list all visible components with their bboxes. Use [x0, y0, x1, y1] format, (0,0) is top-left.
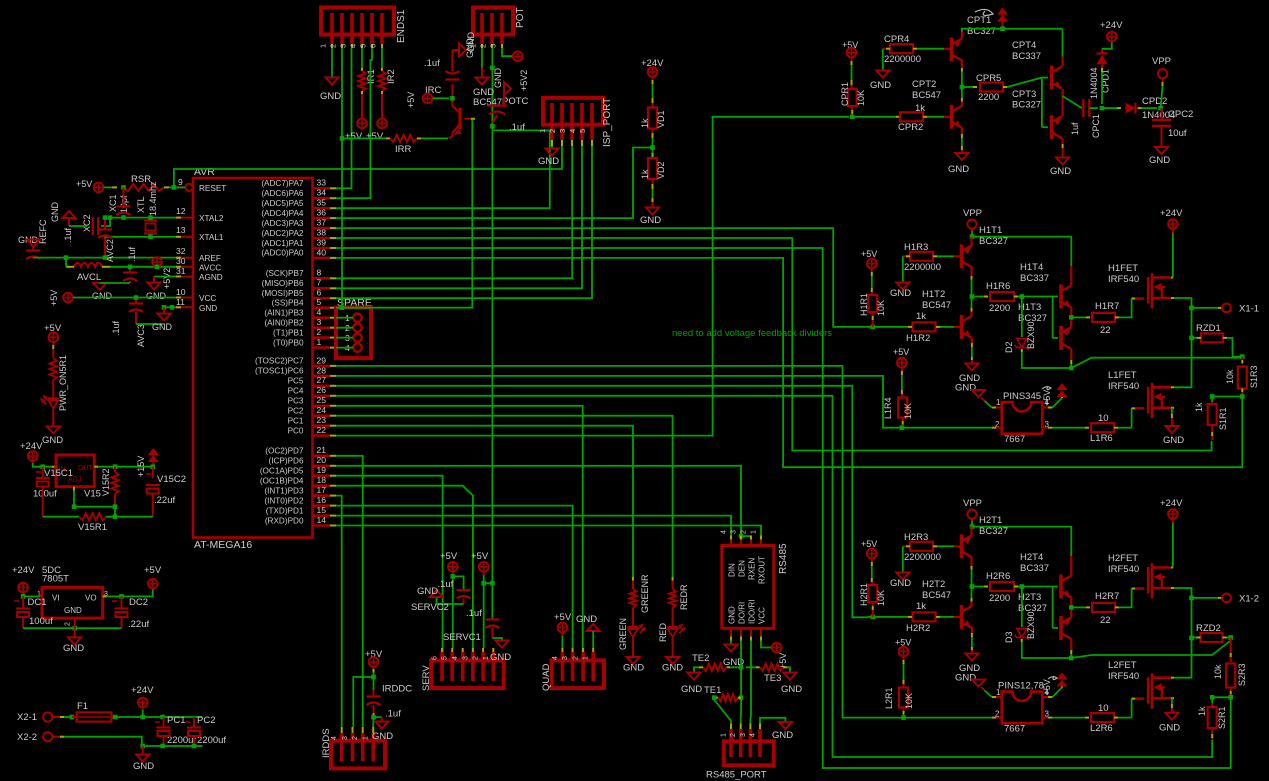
- svg-text:+24V: +24V: [1160, 498, 1183, 509]
- POT pin 3: [500, 13, 504, 44]
- svg-text:22: 22: [317, 425, 327, 435]
- svg-text:SERVC1: SERVC1: [443, 632, 481, 643]
- wire RSR to RESET: [164, 186, 169, 188]
- svg-text:2: 2: [741, 530, 748, 534]
- supply +5V (RS485): [772, 643, 782, 653]
- wire L1FET gate: [1131, 408, 1133, 427]
- LED PWR_ON: [48, 397, 59, 399]
- svg-text:GREEN: GREEN: [618, 618, 628, 650]
- svg-text:.1uf: .1uf: [127, 246, 137, 262]
- svg-text:H1R1: H1R1: [859, 293, 869, 316]
- junction IRDDC top: [371, 675, 376, 680]
- ground GND (POTC): [504, 82, 511, 95]
- svg-text:6: 6: [317, 288, 322, 298]
- svg-text:2200uf: 2200uf: [197, 735, 226, 746]
- wire XTAL1 row: [104, 236, 176, 238]
- svg-text:PINS12,78: PINS12,78: [998, 681, 1044, 692]
- svg-text:+24V: +24V: [131, 685, 154, 696]
- svg-text:IRDDS: IRDDS: [321, 728, 332, 758]
- svg-text:GND: GND: [623, 663, 644, 674]
- MCU pin 7 (MISO)PB6: [313, 287, 330, 290]
- connector QUAD: [552, 660, 604, 688]
- svg-text:IRF540: IRF540: [1108, 381, 1139, 392]
- MCU pin 21 (OC2)PD7: [313, 454, 330, 457]
- svg-text:GND: GND: [662, 663, 683, 674]
- svg-text:(SCK)PB7: (SCK)PB7: [266, 269, 304, 278]
- junction H1R1 bottom: [870, 325, 875, 330]
- svg-text:X1-2: X1-2: [1239, 594, 1259, 605]
- MCU pin 30 AVCC: [176, 266, 193, 268]
- svg-text:1: 1: [319, 44, 328, 48]
- wire H2T2 collector: [971, 587, 973, 599]
- svg-text:H2R1: H2R1: [859, 583, 869, 606]
- MCU pin 12 XTAL2: [176, 217, 193, 219]
- wire PC2 to RED LED: [336, 416, 673, 580]
- wire POT p2 to PA5: [336, 126, 550, 208]
- wire X1 node down: [1174, 308, 1192, 387]
- resistor CPR2 1k: [852, 116, 896, 118]
- svg-text:GND: GND: [133, 761, 154, 772]
- MCU pin 13 XTAL1: [176, 236, 193, 238]
- svg-text:(TOSC2)PC7: (TOSC2)PC7: [255, 357, 304, 366]
- svg-text:35: 35: [317, 198, 327, 208]
- svg-text:GND: GND: [538, 156, 559, 167]
- svg-text:(ADC1)PA1: (ADC1)PA1: [261, 239, 304, 248]
- svg-text:10K: 10K: [903, 403, 913, 419]
- resistor L2R6 10: [1052, 717, 1085, 719]
- 7667-2 pin 3 lead: [1042, 717, 1048, 719]
- junction DEN/RXEN tie: [739, 534, 744, 539]
- ground GND (RS485_PORT): [779, 722, 792, 729]
- wire PC0 to CPR2 net: [336, 117, 849, 436]
- supply +5V (IRC): [423, 94, 433, 104]
- svg-text:H2T4: H2T4: [1020, 552, 1043, 563]
- svg-text:CPR2: CPR2: [898, 122, 923, 133]
- wire RS485_PORT p4 to GND: [760, 718, 785, 724]
- RS485_PORT pin 2: [739, 729, 743, 757]
- svg-text:+5V: +5V: [471, 551, 489, 562]
- svg-text:1N4004: 1N4004: [1089, 67, 1099, 99]
- svg-text:+24V: +24V: [1100, 20, 1123, 31]
- svg-text:4: 4: [568, 129, 577, 133]
- wire junction to CPC1: [1063, 96, 1082, 108]
- wire CPR5 to CPT3/CPT4 bases: [1007, 78, 1042, 128]
- ground GND (RED): [666, 657, 679, 664]
- svg-text:XTL: XTL: [136, 196, 146, 213]
- MCU pin 35 (ADC5)PA5: [313, 207, 330, 210]
- wire XTAL2 row: [110, 217, 176, 219]
- SERV pin 3: [471, 652, 475, 681]
- svg-text:(ADC6)PA6: (ADC6)PA6: [261, 189, 304, 198]
- connector SERV: [431, 660, 504, 688]
- MCU pin 3 (AIN0)PB2: [313, 326, 330, 329]
- svg-text:16: 16: [317, 495, 327, 505]
- ground GND (IRDDC): [375, 722, 388, 729]
- svg-text:S1R1: S1R1: [1218, 407, 1228, 430]
- wire H2T1 collector down: [970, 557, 972, 566]
- svg-text:7805T: 7805T: [42, 574, 69, 585]
- ground GND (X2): [142, 746, 144, 754]
- svg-text:1uf: 1uf: [1070, 122, 1080, 135]
- ENDS1 pin 5: [370, 13, 374, 44]
- svg-text:PC5: PC5: [288, 377, 304, 386]
- MCU pin 10 VCC: [176, 297, 193, 299]
- svg-text:GND: GND: [948, 164, 969, 175]
- svg-text:VPP: VPP: [1152, 56, 1171, 67]
- wire +5V to SERV p2: [483, 572, 485, 575]
- svg-text:18.4mhz: 18.4mhz: [148, 181, 158, 216]
- ground GND (7805): [68, 637, 81, 644]
- wire S1R3 bottom to S1R1: [1212, 397, 1242, 403]
- wire X1 node down: [1174, 598, 1192, 678]
- ground GND (SERVC2): [430, 590, 443, 597]
- svg-text:1: 1: [721, 733, 728, 737]
- svg-text:4: 4: [552, 656, 559, 660]
- svg-text:100uf: 100uf: [33, 489, 57, 500]
- svg-text:+24V: +24V: [1160, 208, 1183, 219]
- wire PC5 to H2 input: [336, 386, 868, 618]
- svg-text:CPC1: CPC1: [1091, 114, 1101, 138]
- ground GND (CPC2): [1155, 147, 1168, 154]
- resistor PWR_ON5R1: [52, 342, 54, 345]
- svg-text:4: 4: [317, 307, 322, 317]
- svg-text:+5V: +5V: [345, 131, 363, 142]
- wire PA3 to H1 input: [336, 228, 868, 327]
- svg-text:X1-1: X1-1: [1239, 304, 1259, 315]
- junction H2T1/H2T2/H2R6: [970, 584, 975, 589]
- svg-text:BC337: BC337: [1012, 51, 1041, 62]
- 7667-1 pin 2 lead: [992, 427, 996, 429]
- svg-text:7667: 7667: [1004, 434, 1025, 445]
- svg-text:36: 36: [317, 208, 327, 218]
- svg-text:IRF540: IRF540: [1108, 671, 1139, 682]
- IRDDS pin 3: [351, 733, 355, 761]
- wire +5V to QUAD p4: [561, 632, 563, 636]
- 7667-1 pin 3 lead: [1042, 427, 1048, 429]
- svg-text:(T0)PB0: (T0)PB0: [273, 338, 304, 347]
- MCU pin 32 AREF: [176, 257, 193, 259]
- svg-text:15: 15: [317, 505, 327, 515]
- wire CPR4 left to GND: [882, 49, 884, 70]
- MCU pin 1 (T0)PB0: [313, 346, 330, 349]
- wire RESET to ISP pin2: [174, 146, 562, 187]
- svg-text:BZX90: BZX90: [1026, 321, 1036, 349]
- IRDDS pin 2: [361, 733, 365, 761]
- svg-text:H1T4: H1T4: [1020, 262, 1043, 273]
- wire PD6 to RS485 DEN: [336, 466, 741, 540]
- resistor S1R3 10k: [1241, 357, 1243, 360]
- svg-text:6: 6: [432, 656, 439, 660]
- junction DC2: [119, 594, 124, 599]
- wire ADJ: [73, 487, 75, 491]
- supply +5V (IR2): [377, 119, 387, 129]
- wire POT p1 to GND: [481, 48, 483, 68]
- svg-text:3: 3: [339, 44, 348, 48]
- MCU pin 28 (TOSC1)PC6: [313, 375, 330, 378]
- RS485 top pin 3: [740, 540, 742, 546]
- svg-text:4: 4: [331, 736, 338, 740]
- junction RZD2 right / S2R3 top: [1228, 635, 1233, 640]
- IRDDS pin 1: [371, 733, 375, 761]
- svg-text:H1R7: H1R7: [1095, 301, 1119, 312]
- svg-text:5: 5: [359, 44, 368, 48]
- svg-text:GND: GND: [64, 606, 82, 615]
- svg-text:CPT1: CPT1: [967, 15, 991, 26]
- svg-text:GND: GND: [320, 91, 341, 102]
- svg-text:1k: 1k: [915, 103, 925, 114]
- ground GND (ENDS1): [326, 78, 339, 85]
- svg-text:17: 17: [317, 485, 327, 495]
- wire AGND row: [154, 276, 176, 278]
- svg-text:GND: GND: [890, 578, 911, 589]
- resistor GREENR: [632, 577, 634, 581]
- wire PB1 to SPARE 3: [336, 337, 353, 339]
- svg-text:CPC2: CPC2: [1168, 109, 1193, 120]
- svg-text:(ADC0)PA0: (ADC0)PA0: [261, 249, 304, 258]
- svg-text:POT: POT: [515, 7, 526, 28]
- ground GND (IRCC): [459, 44, 466, 57]
- wire PC1 to GREEN LED: [336, 426, 633, 580]
- svg-text:+5V: +5V: [554, 612, 572, 623]
- QUAD pin 2: [581, 652, 585, 681]
- svg-text:VCC: VCC: [758, 607, 767, 624]
- svg-text:CPT4: CPT4: [1012, 40, 1036, 51]
- svg-text:IRR: IRR: [395, 144, 412, 155]
- svg-text:H2R6: H2R6: [986, 571, 1010, 582]
- svg-text:3: 3: [462, 656, 469, 660]
- MCU pin 26 PC4: [313, 394, 330, 397]
- wire H1R6 to bases: [1018, 297, 1053, 339]
- junction VPP rail H2: [970, 524, 975, 529]
- junction IRDDC bottom: [371, 715, 376, 720]
- svg-text:DEN: DEN: [738, 560, 747, 577]
- svg-text:D3: D3: [1004, 631, 1014, 643]
- svg-text:CPD2: CPD2: [1142, 96, 1167, 107]
- svg-text:GND: GND: [372, 731, 393, 742]
- 7667-1 pin 1 to GND: [996, 407, 1002, 409]
- junction TE1 left: [712, 695, 717, 700]
- SPARE pin 3: [353, 333, 361, 341]
- svg-text:22: 22: [1100, 325, 1111, 336]
- POT pin 1: [480, 13, 484, 44]
- ground GND (POT): [476, 78, 489, 85]
- svg-text:.1uf: .1uf: [63, 227, 73, 243]
- junction POT p2 branches: [490, 124, 495, 129]
- wire PD7 to IRDDS p2: [336, 456, 363, 727]
- ground GND (VD2): [646, 208, 659, 215]
- svg-text:GND: GND: [92, 291, 113, 301]
- svg-text:GND: GND: [42, 435, 63, 446]
- wire VD junction to PA4: [336, 148, 653, 219]
- wire PB3 to SPARE 1: [336, 317, 353, 319]
- junction S1R3 top: [1240, 354, 1245, 359]
- wire H1R7 to H1FET gate: [1119, 299, 1132, 318]
- svg-text:10K: 10K: [856, 90, 866, 106]
- wire AVCL left to AREF: [65, 258, 67, 267]
- wire H2T3 collector down: [1070, 639, 1072, 650]
- resistor IRR: [342, 137, 386, 139]
- 7667-2 pin 4 to +5V arrow: [1042, 696, 1048, 698]
- MCU pin 29 (TOSC2)PC7: [313, 365, 330, 368]
- ISP_PORT pin 5: [590, 103, 594, 140]
- svg-text:TE3: TE3: [764, 673, 781, 684]
- svg-text:IR2: IR2: [386, 69, 397, 84]
- SERV pin 5: [450, 652, 454, 681]
- junction feedback H1: [1069, 366, 1074, 371]
- svg-text:(TXD)PD1: (TXD)PD1: [266, 506, 304, 515]
- RS485_PORT pin 4: [758, 729, 762, 757]
- MCU pin 31 AGND: [176, 276, 193, 278]
- RS485 top pin 1: [760, 540, 762, 546]
- svg-text:2200000: 2200000: [904, 262, 941, 273]
- ground GND (H2T2): [965, 654, 978, 661]
- wire PC6 to L1 drive: [336, 376, 897, 428]
- wire PC3 to QUAD p2: [336, 406, 583, 660]
- QUAD pin 3: [571, 652, 575, 681]
- svg-text:AVC3: AVC3: [136, 324, 146, 347]
- svg-text:+5V: +5V: [366, 131, 384, 142]
- svg-text:GND: GND: [1163, 435, 1184, 446]
- svg-text:TE2: TE2: [692, 653, 709, 664]
- svg-text:14: 14: [317, 515, 327, 525]
- svg-text:(AIN0)PB2: (AIN0)PB2: [264, 319, 304, 328]
- junction ADJ node: [113, 504, 118, 509]
- svg-text:QUAD: QUAD: [541, 663, 552, 691]
- svg-text:(INT1)PD3: (INT1)PD3: [264, 486, 304, 495]
- junction SERVC1 feed: [481, 581, 486, 586]
- svg-text:12: 12: [176, 206, 186, 216]
- wire IRC base down to PB4 row: [336, 120, 472, 308]
- svg-text:+5V: +5V: [49, 290, 59, 306]
- SERV pin 4: [461, 652, 465, 681]
- wire VO rail: [103, 595, 107, 597]
- svg-text:2200000: 2200000: [884, 54, 921, 65]
- wire ENDS1 p2 down (PB4 net): [341, 48, 343, 308]
- wire CPT4 emitter / CPT3 emitter junction: [1061, 89, 1063, 96]
- svg-text:19: 19: [317, 465, 327, 475]
- supply +5V arrow (7667-1): [1057, 383, 1068, 390]
- MCU pin 17 (INT1)PD3: [313, 494, 330, 497]
- wire to SERVC2: [453, 576, 464, 589]
- svg-text:2200: 2200: [989, 303, 1010, 314]
- MCU pin 4 (AIN1)PB3: [313, 316, 330, 319]
- svg-text:H1R6: H1R6: [986, 281, 1010, 292]
- junction CPR1/CPR2: [850, 115, 855, 120]
- svg-text:.1uf: .1uf: [509, 122, 525, 133]
- ground GND (CPT2): [955, 153, 968, 160]
- svg-text:PC0: PC0: [288, 426, 304, 435]
- svg-text:RXOUT: RXOUT: [758, 556, 767, 584]
- zener diode D1 BZX90: [1021, 297, 1023, 338]
- wire 7667-2 pin2 row: [897, 717, 992, 719]
- svg-text:OUT: OUT: [78, 465, 94, 472]
- svg-text:(ADC4)PA4: (ADC4)PA4: [261, 209, 304, 218]
- wire emitters junction H2: [1070, 598, 1072, 608]
- svg-text:V15: V15: [84, 489, 101, 500]
- MCU pin 39 (ADC1)PA1: [313, 247, 330, 250]
- wire PD4 to SERV p3: [336, 486, 473, 652]
- junction L1R4 bottom: [900, 425, 905, 430]
- wire PD1 to RS485 DIN: [336, 516, 731, 540]
- ground GND (analog caps): [99, 282, 101, 284]
- pin X1-2: [1222, 594, 1231, 603]
- svg-text:H1T2: H1T2: [922, 289, 945, 300]
- IC RS485: [722, 546, 774, 629]
- svg-text:GND: GND: [870, 80, 891, 91]
- svg-text:ISP_PORT: ISP_PORT: [602, 98, 613, 147]
- svg-text:+5V2: +5V2: [519, 70, 529, 91]
- svg-text:6: 6: [369, 44, 378, 48]
- svg-text:9: 9: [178, 177, 183, 187]
- svg-text:DC1: DC1: [28, 597, 47, 608]
- svg-text:L2FET: L2FET: [1108, 660, 1137, 671]
- svg-text:SERVC2: SERVC2: [411, 602, 449, 613]
- ground GND (SERVC1): [496, 641, 509, 648]
- svg-text:H2T1: H2T1: [979, 515, 1002, 526]
- svg-text:RXEN: RXEN: [748, 558, 757, 580]
- svg-text:H2T2: H2T2: [922, 579, 945, 590]
- SERV pin 2: [481, 652, 485, 681]
- resistor IR2: [381, 68, 383, 71]
- wire H1FET drain to +24V: [1171, 277, 1173, 279]
- wire H1T2 collector: [971, 297, 973, 309]
- ground GND (PWR_ON): [47, 427, 60, 434]
- wire RS485 GND pin: [730, 641, 732, 645]
- svg-text:32: 32: [176, 246, 186, 256]
- svg-text:IRDDC: IRDDC: [382, 684, 412, 695]
- 7667-2 pin 2 lead: [992, 717, 996, 719]
- svg-text:GND: GND: [890, 288, 911, 299]
- wire +5V to IRC collector: [433, 97, 449, 99]
- svg-text:AREF: AREF: [199, 254, 221, 263]
- svg-text:GND: GND: [772, 730, 793, 741]
- svg-text:(SS)PB4: (SS)PB4: [272, 299, 304, 308]
- svg-text:SERV: SERV: [421, 665, 432, 691]
- wire CPT1 collector to CPR5 junction: [961, 60, 963, 68]
- svg-text:4: 4: [349, 44, 358, 48]
- svg-text:10uf: 10uf: [1168, 128, 1187, 139]
- svg-text:23: 23: [317, 415, 327, 425]
- svg-text:H1R2: H1R2: [906, 333, 930, 344]
- svg-text:1k: 1k: [1194, 402, 1204, 412]
- junction S1R3 bottom: [1240, 394, 1245, 399]
- wire RS485 DO/RI down: [740, 641, 742, 720]
- ground GND (TE2): [688, 673, 701, 680]
- svg-text:BC327: BC327: [979, 236, 1008, 247]
- svg-text:XTAL2: XTAL2: [199, 214, 224, 223]
- svg-text:37: 37: [317, 218, 327, 228]
- svg-text:7667: 7667: [1004, 724, 1025, 735]
- wire CPT4 collector up: [1061, 57, 1063, 67]
- junction S2R3 bottom: [1228, 695, 1233, 700]
- svg-text:+5V2: +5V2: [162, 268, 172, 289]
- svg-text:2200000: 2200000: [904, 552, 941, 563]
- svg-text:XTAL1: XTAL1: [199, 233, 224, 242]
- svg-text:+5V: +5V: [861, 249, 877, 259]
- svg-text:GND: GND: [466, 32, 476, 53]
- svg-text:F1: F1: [77, 701, 88, 712]
- svg-text:REDR: REDR: [679, 584, 689, 610]
- svg-text:3: 3: [317, 317, 322, 327]
- svg-text:H1FET: H1FET: [1108, 263, 1138, 274]
- svg-text:BC547: BC547: [912, 90, 941, 101]
- ground GND (RS485): [725, 645, 738, 652]
- ground GND (GREEN): [627, 657, 640, 664]
- MCU pin 38 (ADC2)PA2: [313, 237, 330, 240]
- MCU pin 22 PC0: [313, 434, 330, 437]
- svg-text:RS485_PORT: RS485_PORT: [706, 770, 767, 781]
- junction RESET node: [172, 185, 177, 190]
